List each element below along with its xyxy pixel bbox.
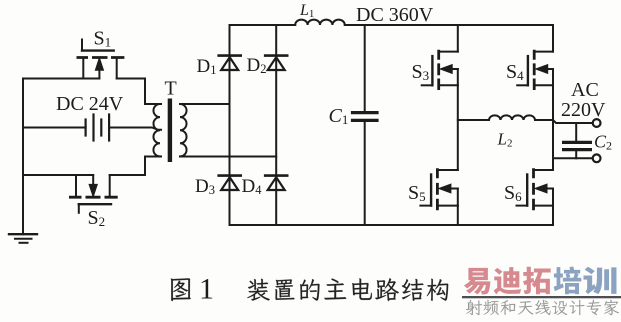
wire top rail right of L1 — [345, 24, 553, 26]
wire top rail left of L1 — [230, 24, 296, 26]
svg-text:C1: C1 — [329, 105, 349, 127]
capacitor C1 — [353, 25, 378, 225]
wire secondary top to bridge — [180, 103, 230, 105]
wire L2 to output top — [535, 120, 592, 123]
svg-text:S6: S6 — [504, 182, 522, 204]
wire H-bridge left leg — [457, 25, 459, 225]
svg-text:S4: S4 — [506, 61, 524, 83]
diode D4 — [265, 176, 287, 190]
terminal output bottom — [593, 154, 601, 162]
svg-text:D4: D4 — [242, 176, 263, 197]
wire H-bridge right leg — [552, 25, 554, 225]
wire S2 drain to transformer — [110, 157, 161, 176]
wire bridge left branch — [229, 25, 231, 225]
capacitor C2 — [564, 123, 591, 158]
transformer T primary winding — [153, 104, 160, 156]
svg-text:L2: L2 — [497, 130, 513, 150]
wire output bottom — [553, 157, 592, 159]
svg-text:AC: AC — [571, 79, 599, 101]
transistor S3 — [422, 50, 458, 90]
wire bottom rail — [230, 224, 554, 226]
inductor L1 — [295, 20, 345, 25]
transistor S1 — [77, 40, 125, 79]
svg-text:D2: D2 — [247, 55, 267, 76]
svg-text:D1: D1 — [197, 56, 217, 77]
diode D3 — [219, 176, 241, 190]
svg-text:DC 360V: DC 360V — [356, 4, 434, 26]
svg-text:S3: S3 — [412, 61, 430, 83]
transformer T secondary winding — [180, 104, 187, 156]
transistor S5 — [420, 168, 457, 210]
svg-text:S2: S2 — [88, 207, 106, 229]
wire left rail — [22, 79, 24, 235]
diode D1 — [219, 56, 241, 70]
battery B1 — [23, 115, 161, 141]
svg-text:L1: L1 — [299, 2, 314, 20]
svg-text:220V: 220V — [561, 99, 606, 121]
transistor S2 — [69, 175, 118, 213]
svg-text:S5: S5 — [408, 182, 426, 204]
diode D2 — [265, 56, 287, 70]
transformer T core — [168, 99, 172, 163]
watermark logo: yiditop peixun — [464, 267, 617, 295]
ground — [9, 234, 37, 243]
svg-text:C2: C2 — [594, 132, 612, 153]
wire secondary bottom to bridge — [180, 156, 276, 158]
watermark subtitle — [466, 300, 619, 316]
watermark underline — [462, 296, 621, 298]
wire bridge right branch — [275, 25, 277, 225]
svg-text:DC 24V: DC 24V — [56, 93, 124, 115]
wire bridge mid to L2 — [458, 119, 489, 121]
svg-text:S1: S1 — [94, 28, 112, 50]
transistor S6 — [517, 168, 554, 210]
svg-text:T: T — [165, 78, 177, 100]
caption: figure 1 title — [171, 273, 448, 306]
wire S2 source rail — [23, 174, 93, 176]
wire S1 drain to transformer — [117, 79, 161, 105]
inductor L2 — [489, 115, 535, 120]
svg-text:D3: D3 — [195, 176, 215, 197]
svg-text:1: 1 — [199, 273, 214, 306]
terminal output top — [593, 119, 601, 127]
wire S1 source rail — [23, 78, 99, 80]
transistor S4 — [517, 50, 553, 90]
